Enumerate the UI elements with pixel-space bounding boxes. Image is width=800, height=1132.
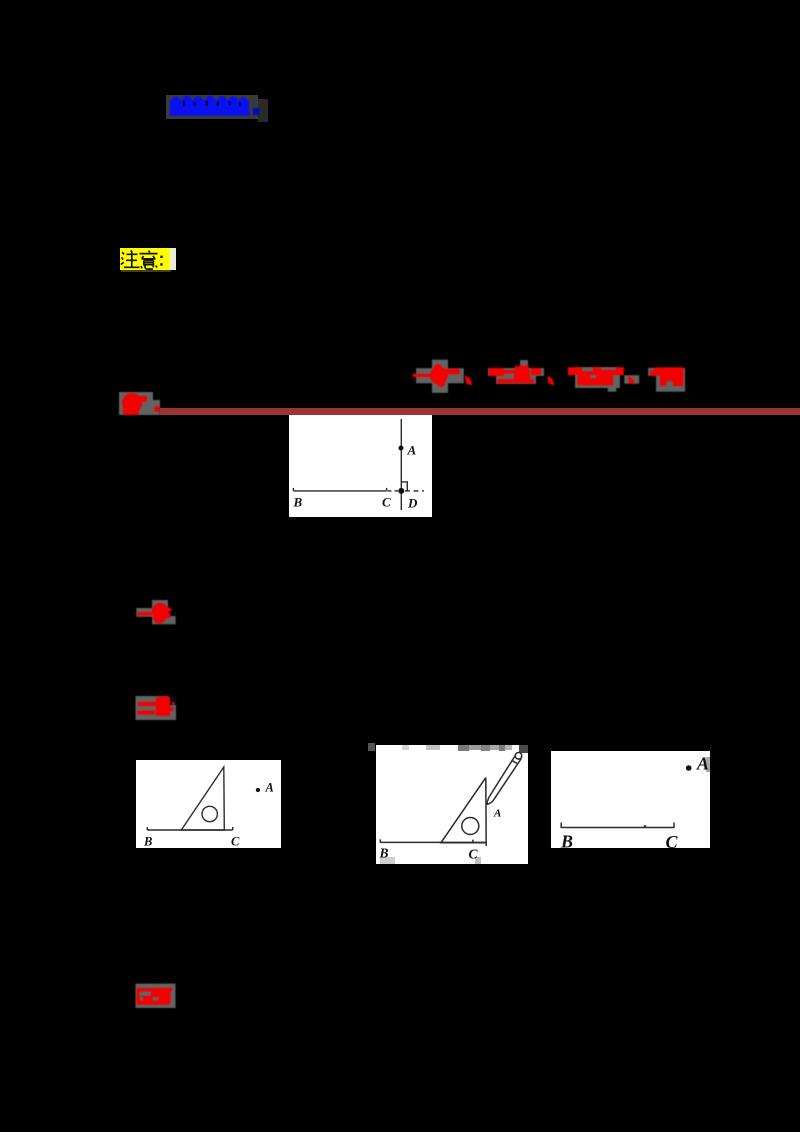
group 3 grey notches over red (582, 367, 593, 371)
group 3 comma with grey block (624, 375, 639, 384)
title period (253, 108, 259, 115)
right angle mark at D (401, 482, 407, 491)
set square hole (202, 806, 217, 821)
svg-text:A: A (265, 781, 274, 795)
underline (170, 113, 251, 116)
svg-text:C: C (469, 847, 479, 862)
svg-text:D: D (407, 496, 418, 511)
point A dot (399, 446, 404, 451)
svg-text:C: C (666, 832, 679, 848)
pencil tip (487, 798, 493, 805)
pencil body (489, 756, 522, 801)
yellow highlight 注意: (120, 248, 170, 270)
pencil cap (515, 753, 522, 760)
group 4 red strokes (650, 367, 683, 386)
point A dot (686, 765, 692, 771)
vertical line AD (400, 419, 402, 510)
title highlight block (166, 95, 258, 119)
group 1 grey shadow cross (432, 360, 448, 393)
figure 3: set-square with pencil drawing AC (376, 745, 528, 864)
red example-1 marker with grey shadow (115, 390, 175, 420)
意 heart bottom (141, 265, 157, 269)
segment BC with end ticks (293, 488, 386, 491)
group 2 grey shadow (520, 360, 528, 367)
svg-text:B: B (379, 846, 389, 861)
title blue overlapped text (160, 92, 268, 124)
grey scan mark left of figure 3 (368, 743, 375, 751)
意 top (140, 251, 158, 259)
scan noise bottom (380, 857, 395, 864)
segment BC with end ticks (561, 823, 674, 829)
colon (160, 256, 162, 266)
figure 4: segment BC and point A (551, 751, 710, 848)
figure 2: set-square on BC, point A (136, 760, 281, 848)
svg-text:C: C (231, 835, 240, 849)
small scan bump on segment (644, 825, 647, 827)
意 middle box (144, 260, 154, 264)
svg-text:A: A (407, 443, 417, 458)
red example-2 marker (130, 595, 182, 631)
svg-text:A: A (493, 808, 501, 820)
svg-text:B: B (293, 495, 303, 510)
red section-2 marker (130, 690, 182, 726)
scan noise dashes top (402, 745, 528, 753)
svg-text:A: A (696, 754, 709, 774)
red section-3 marker (130, 978, 182, 1014)
group 1 red strokes (413, 364, 472, 387)
dark red horizontal rule (160, 408, 800, 415)
group 4 grey shadow (648, 368, 657, 376)
svg-text:B: B (560, 832, 573, 849)
注 water radical (121, 252, 124, 264)
group 3 grey shadow (575, 367, 620, 388)
segment BC with end ticks (147, 827, 232, 830)
group 2 red strokes (489, 364, 554, 386)
point D dot (398, 488, 404, 494)
figure 1: point A, segment BC, perpendicular through D (289, 415, 432, 517)
注 right part (124, 251, 140, 268)
set square hole (462, 818, 479, 835)
svg-text:B: B (143, 835, 152, 849)
group 4 notch (667, 381, 674, 387)
grey scan bar right edge (706, 757, 711, 772)
set square triangle (441, 778, 486, 846)
set square triangle (181, 767, 224, 830)
dashed extension to D (388, 490, 399, 492)
group 3 red strokes (568, 367, 624, 385)
segment BC with tick at B and C (380, 839, 486, 843)
red mnemonic row (four groups with grey shadows) (405, 355, 700, 395)
point A dot (256, 788, 260, 792)
svg-text:C: C (382, 495, 391, 510)
